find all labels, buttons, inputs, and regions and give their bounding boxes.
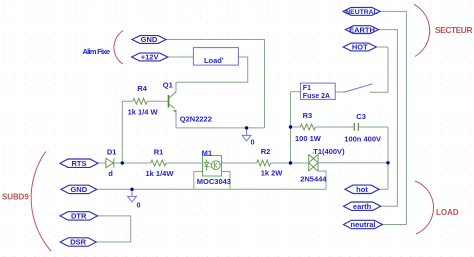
svg-text:GND: GND (70, 185, 87, 194)
transistor Q1 (169, 82, 177, 128)
junction emitter ground (245, 126, 248, 129)
resistor R4 (127, 98, 168, 104)
wire R4 net (122, 101, 127, 163)
svg-text:d: d (108, 169, 113, 178)
svg-text:F1: F1 (303, 85, 311, 92)
svg-text:2N5444: 2N5444 (300, 175, 327, 184)
svg-text:Q1: Q1 (163, 81, 173, 90)
diode D1 (102, 158, 119, 167)
port RTS (60, 159, 98, 168)
ground 0 at GND rail (128, 189, 137, 202)
port GND (SUBD9) (61, 185, 97, 194)
wire RTS row (98, 162, 102, 164)
wire R2 to gate node (277, 162, 303, 164)
junction R4 net (121, 161, 124, 164)
svg-text:GND: GND (141, 35, 158, 44)
wire SUBD9 GND rail (97, 188, 326, 190)
port +12V (132, 53, 168, 62)
svg-text:1k 1/4 W: 1k 1/4 W (128, 107, 159, 116)
svg-text:R4: R4 (137, 84, 147, 93)
wire M1 pin2 drop (194, 172, 203, 190)
svg-text:+12V: +12V (141, 53, 159, 62)
wire R3 C3 row (291, 126, 389, 128)
wire +12V to Load (168, 56, 194, 58)
port HOT (343, 43, 376, 52)
wire emitter to ground rail (176, 127, 265, 129)
svg-text:DSR: DSR (70, 238, 86, 247)
svg-text:Alim Fixe: Alim Fixe (83, 47, 111, 56)
wire snubber to hot terminal (387, 127, 389, 189)
ground 0 at emitter rail (242, 128, 251, 141)
svg-text:C3: C3 (356, 112, 366, 121)
wire T1 MT2 to hot node (320, 162, 388, 164)
junction snubber top (289, 125, 292, 128)
svg-text:Fuse 2A: Fuse 2A (303, 93, 330, 100)
svg-text:T1(400V): T1(400V) (313, 147, 345, 156)
svg-text:RTS: RTS (72, 159, 87, 168)
port GND (Alim Fixe) (132, 35, 166, 44)
wire HOT terminal (376, 46, 388, 48)
svg-text:0: 0 (251, 139, 255, 146)
svg-text:1k 1/4W: 1k 1/4W (146, 169, 175, 178)
group arc SECTEUR (414, 4, 430, 56)
svg-text:earth: earth (353, 202, 372, 211)
port EARTH (346, 25, 379, 34)
wire gate node vertical (290, 92, 292, 163)
port DTR (60, 212, 98, 221)
svg-text:SUBD9: SUBD9 (2, 192, 29, 201)
svg-text:100 1W: 100 1W (295, 134, 322, 143)
junction GND rail (130, 188, 133, 191)
wire M1 pin4 drop (222, 172, 231, 190)
svg-text:D1: D1 (107, 147, 117, 156)
svg-text:R2: R2 (261, 147, 271, 156)
wire hot terminal stub (379, 188, 388, 190)
resistor R1 (144, 160, 172, 166)
svg-text:hot: hot (356, 185, 368, 194)
svg-text:R1: R1 (154, 148, 164, 157)
wire GND top rail (166, 40, 265, 128)
svg-text:LOAD: LOAD (436, 208, 459, 217)
svg-text:1k 2W: 1k 2W (261, 168, 284, 177)
svg-text:SECTEUR: SECTEUR (435, 25, 473, 35)
group arc SUBD9 (31, 152, 51, 252)
resistor R3 (296, 124, 319, 130)
svg-text:Q2N2222: Q2N2222 (180, 114, 212, 123)
port NEUTRAL (343, 8, 380, 17)
wire fuse left (291, 91, 301, 93)
optocoupler M1 MOC3043 (196, 156, 228, 177)
capacitor C3 (350, 123, 362, 131)
wire M1 to R2 (228, 162, 251, 164)
svg-text:MOC3043: MOC3043 (197, 177, 231, 186)
wire NEUTRAL run (380, 11, 406, 224)
group arc Alim Fixe (114, 31, 123, 65)
wire T1 MT1 to rail (318, 171, 326, 189)
wire fuse box right stub (335, 91, 344, 93)
port earth (344, 202, 381, 211)
svg-text:100n 400V: 100n 400V (344, 134, 381, 143)
fuse F1 (300, 83, 372, 99)
group arc LOAD (415, 181, 434, 234)
port neutral (344, 220, 383, 229)
svg-text:HOT: HOT (352, 43, 368, 52)
port DSR (60, 238, 96, 247)
svg-text:DTR: DTR (71, 212, 87, 221)
wire Load output to Q1 collector (176, 57, 248, 82)
svg-text:M1: M1 (202, 149, 212, 158)
wire R1 to M1 (172, 162, 196, 164)
svg-text:NEUTRAL: NEUTRAL (345, 9, 377, 16)
triac T1 (302, 152, 320, 172)
box Load (193, 48, 238, 66)
junction gate node (289, 161, 292, 164)
junction hot node (386, 161, 389, 164)
wire D1 to R1 (118, 162, 144, 164)
svg-text:0: 0 (137, 202, 141, 209)
svg-text:Loadʹ: Loadʹ (204, 56, 224, 65)
svg-text:EARTH: EARTH (349, 25, 375, 34)
svg-text:R3: R3 (303, 111, 313, 120)
resistor R2 (251, 160, 277, 166)
svg-text:neutral: neutral (350, 220, 375, 229)
wire DTR DSR loop (96, 216, 131, 242)
port hot (345, 185, 379, 194)
wire EARTH run (379, 30, 398, 207)
wire fuse right stub (370, 47, 388, 92)
